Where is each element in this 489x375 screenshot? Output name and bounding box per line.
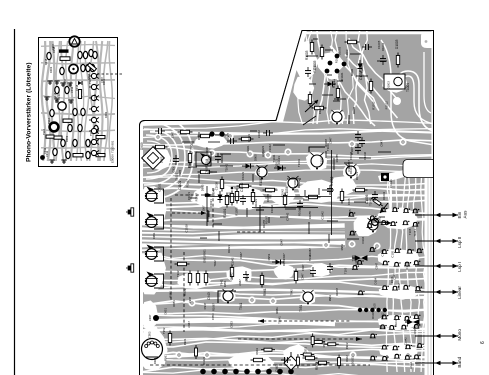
svg-text:R962: R962 (385, 354, 389, 361)
capacitor C1031 (381, 173, 389, 181)
svg-text:T951: T951 (299, 305, 303, 312)
svg-text:T909: T909 (190, 143, 194, 150)
svg-text:C953: C953 (304, 346, 308, 353)
svg-text:C912: C912 (70, 86, 74, 93)
svg-text:R1067: R1067 (259, 176, 263, 186)
svg-text:D1003: D1003 (345, 49, 349, 58)
svg-text:T912: T912 (54, 97, 58, 103)
svg-text:C105: C105 (348, 209, 352, 216)
svg-text:T912: T912 (47, 118, 51, 124)
svg-text:D104: D104 (394, 320, 398, 327)
svg-text:C947: C947 (238, 279, 242, 286)
svg-text:R918: R918 (44, 58, 48, 65)
svg-text:D905: D905 (201, 184, 205, 191)
svg-text:Mono: Mono (457, 329, 462, 341)
svg-text:T105: T105 (408, 228, 412, 235)
svg-text:T105: T105 (372, 303, 376, 310)
svg-text:R951: R951 (275, 307, 279, 314)
svg-text:R1012: R1012 (385, 101, 389, 110)
svg-text:C1042: C1042 (229, 272, 233, 280)
svg-text:Phono-Vorverstärker (Lötseite): Phono-Vorverstärker (Lötseite) (26, 62, 33, 162)
svg-text:T942: T942 (176, 270, 180, 277)
svg-text:C1042: C1042 (268, 144, 272, 153)
svg-text:R962: R962 (345, 355, 349, 362)
svg-text:T1004: T1004 (406, 83, 410, 92)
svg-text:C974: C974 (413, 327, 417, 334)
transistor T1042 (257, 167, 267, 177)
transistor T941 (223, 291, 233, 301)
svg-text:C1021: C1021 (241, 171, 245, 180)
svg-text:C1042: C1042 (321, 211, 325, 220)
svg-text:C953: C953 (230, 321, 234, 328)
svg-text:R951: R951 (152, 232, 156, 239)
svg-text:C1042: C1042 (270, 204, 274, 213)
svg-text:D104: D104 (409, 362, 413, 369)
svg-text:D1021: D1021 (202, 356, 206, 364)
svg-text:R961: R961 (163, 354, 167, 361)
svg-text:C947: C947 (301, 273, 305, 280)
svg-text:E000V 7150 991: E000V 7150 991 (111, 140, 115, 163)
svg-text:D905: D905 (159, 156, 163, 163)
dashed wire with arrow (175, 194, 212, 196)
transistor T901 (inset) (69, 36, 79, 46)
svg-text:C912: C912 (43, 147, 47, 154)
svg-text:R1067: R1067 (202, 205, 206, 214)
callout arrow: Linear (415, 291, 458, 293)
svg-text:R1055: R1055 (335, 154, 339, 163)
svg-text:T912: T912 (89, 130, 93, 136)
svg-text:R1067: R1067 (298, 207, 302, 216)
svg-text:R962: R962 (345, 342, 349, 349)
svg-text:C1042: C1042 (240, 182, 244, 192)
resistor ovals (inset) (47, 52, 51, 59)
svg-text:T1041: T1041 (277, 316, 281, 324)
svg-text:6: 6 (480, 341, 486, 344)
svg-text:C947: C947 (170, 131, 174, 138)
svg-text:C1042: C1042 (354, 257, 358, 265)
svg-text:D1021: D1021 (350, 356, 354, 364)
svg-text:D951: D951 (223, 280, 227, 287)
svg-text:C1101: C1101 (178, 181, 182, 190)
svg-text:R1067: R1067 (324, 138, 328, 146)
svg-text:C1042: C1042 (280, 189, 284, 198)
svg-text:R951: R951 (168, 290, 172, 297)
svg-text:D909: D909 (140, 142, 144, 150)
index dot (inset) (40, 155, 45, 160)
svg-text:R1067: R1067 (186, 179, 190, 188)
svg-text:T942: T942 (213, 260, 217, 267)
connector sockets (left edge) (154, 189, 164, 203)
svg-text:D104: D104 (361, 236, 365, 243)
svg-text:R951: R951 (245, 274, 249, 281)
svg-text:R1067: R1067 (350, 146, 354, 155)
svg-text:D905: D905 (254, 154, 258, 161)
svg-text:C953: C953 (148, 331, 152, 338)
svg-text:D1021: D1021 (174, 172, 178, 180)
svg-text:R1055: R1055 (262, 219, 266, 228)
svg-text:C105: C105 (391, 250, 395, 257)
callout arrow: Band (415, 362, 458, 364)
svg-text:T1041: T1041 (368, 197, 372, 205)
components overlay (126, 39, 424, 374)
svg-text:R1067: R1067 (349, 165, 353, 174)
callout arrow: Ein/Aus switch (415, 214, 458, 216)
svg-text:C907: C907 (100, 76, 104, 83)
callout arrow: Lsp II (415, 240, 458, 242)
svg-text:T1041: T1041 (297, 159, 301, 167)
svg-text:R951: R951 (267, 253, 271, 260)
svg-text:C1038: C1038 (185, 224, 189, 233)
transistor T1040 (332, 112, 342, 122)
svg-text:R1067: R1067 (194, 193, 198, 202)
svg-text:R961: R961 (255, 348, 259, 355)
svg-text:R1055: R1055 (187, 159, 191, 168)
svg-text:R961: R961 (153, 357, 157, 364)
svg-text:R1012: R1012 (371, 101, 375, 110)
svg-text:T912: T912 (42, 129, 46, 135)
svg-text:C947: C947 (392, 273, 396, 280)
svg-text:R961: R961 (263, 288, 267, 296)
capacitor C910 group (153, 145, 168, 148)
svg-text:C947: C947 (188, 296, 192, 303)
callout arrow: Mono (415, 335, 458, 337)
rectifier diamond D909 (142, 147, 165, 170)
loudspeaker plug symbols (126, 208, 134, 216)
svg-text:D1021: D1021 (274, 159, 278, 168)
svg-text:C1042: C1042 (257, 166, 261, 175)
svg-text:D1021: D1021 (355, 171, 359, 180)
svg-text:C910: C910 (205, 167, 209, 174)
svg-text:R918: R918 (75, 84, 79, 91)
svg-text:R951: R951 (183, 288, 187, 296)
right margin callouts (415, 210, 486, 368)
svg-text:C907: C907 (63, 78, 67, 85)
svg-text:D1021: D1021 (246, 145, 250, 153)
svg-text:D104: D104 (405, 263, 409, 270)
svg-text:D104: D104 (374, 277, 378, 284)
svg-text:R106: R106 (371, 312, 375, 319)
copper ground plane (135, 25, 440, 375)
svg-text:T1041: T1041 (228, 191, 232, 199)
svg-text:C963: C963 (275, 364, 279, 372)
transistor T1043 (288, 178, 298, 188)
transistor glyph column (inset) (89, 73, 99, 78)
svg-text:T912: T912 (88, 78, 92, 84)
svg-text:R951: R951 (340, 243, 344, 250)
svg-text:Band: Band (457, 356, 462, 367)
svg-text:Aus: Aus (463, 210, 468, 219)
svg-text:Linear: Linear (457, 286, 462, 299)
svg-text:R961: R961 (322, 340, 326, 347)
solder pads (246, 150, 253, 157)
svg-text:D1021: D1021 (187, 192, 191, 201)
svg-text:D903: D903 (65, 135, 69, 142)
svg-text:R962: R962 (397, 283, 401, 290)
svg-text:C1036: C1036 (363, 151, 367, 160)
svg-text:C1038: C1038 (205, 147, 209, 156)
inset board border (39, 38, 118, 167)
svg-text:D903: D903 (49, 66, 53, 73)
svg-text:R1021: R1021 (318, 106, 322, 115)
svg-text:R1055: R1055 (235, 207, 239, 216)
svg-text:C947: C947 (301, 264, 305, 271)
svg-text:C947: C947 (374, 262, 378, 269)
svg-text:Ein: Ein (457, 211, 462, 218)
svg-text:C947: C947 (328, 137, 332, 144)
svg-text:D905: D905 (178, 169, 182, 176)
small-signal component cluster (right) (380, 208, 387, 212)
svg-text:C105: C105 (347, 198, 351, 205)
svg-text:R1021: R1021 (340, 72, 344, 81)
svg-text:C1042: C1042 (231, 257, 235, 265)
svg-text:C947: C947 (203, 302, 207, 309)
svg-text:Lsp I: Lsp I (457, 262, 462, 272)
DIN connector Bu901 (142, 339, 163, 360)
svg-text:R1063: R1063 (382, 191, 386, 200)
svg-text:C105: C105 (380, 249, 384, 256)
svg-text:D1021: D1021 (261, 145, 265, 154)
capacitor/ground symbols (inset) (47, 81, 52, 85)
svg-text:R1055: R1055 (266, 193, 270, 202)
etched trace channels (139, 30, 307, 126)
svg-text:C947: C947 (187, 321, 191, 328)
svg-text:R1067: R1067 (335, 287, 339, 295)
svg-text:C1042: C1042 (257, 130, 261, 138)
svg-text:C947: C947 (282, 253, 286, 260)
svg-text:D903: D903 (104, 111, 108, 118)
svg-text:C947: C947 (148, 314, 152, 321)
relay T1004 (384, 74, 405, 89)
solder joint dots cluster (335, 54, 340, 59)
svg-text:Lsp II: Lsp II (457, 237, 462, 248)
svg-text:T912: T912 (93, 94, 97, 100)
svg-text:C1054: C1054 (285, 186, 289, 196)
svg-text:C947: C947 (239, 252, 243, 259)
svg-text:R1012: R1012 (381, 42, 385, 51)
svg-text:C910: C910 (172, 165, 176, 172)
svg-text:C947: C947 (380, 140, 384, 147)
svg-text:T952: T952 (162, 327, 166, 334)
transistor T1041 (311, 155, 323, 167)
svg-text:D951: D951 (164, 308, 168, 315)
wire bus (205, 150, 332, 235)
svg-text:T1041: T1041 (224, 163, 228, 171)
wire arrows (305, 100, 318, 112)
svg-text:D951: D951 (172, 300, 176, 307)
svg-text:T1041: T1041 (413, 229, 417, 237)
svg-text:R1021: R1021 (312, 64, 316, 73)
svg-text:D1021: D1021 (209, 199, 213, 208)
svg-text:T1041: T1041 (293, 179, 297, 187)
svg-text:D1003: D1003 (395, 39, 399, 49)
svg-text:C1031: C1031 (389, 179, 393, 188)
svg-text:C1042: C1042 (285, 212, 289, 221)
resistor group R951 area (188, 271, 191, 286)
svg-text:C943: C943 (207, 292, 211, 300)
svg-text:R1067: R1067 (212, 303, 216, 311)
svg-text:R951: R951 (202, 249, 206, 256)
transistor T909 (196, 152, 211, 166)
svg-text:D1021: D1021 (297, 180, 301, 189)
svg-text:R961: R961 (183, 338, 187, 345)
svg-text:R1067: R1067 (320, 156, 324, 165)
svg-text:C947: C947 (226, 132, 230, 139)
svg-text:T941: T941 (239, 303, 243, 310)
svg-text:D1021: D1021 (227, 245, 231, 253)
svg-text:R962: R962 (380, 312, 384, 319)
svg-text:R1021: R1021 (311, 100, 315, 109)
svg-text:R1011: R1011 (332, 79, 336, 88)
svg-text:D1021: D1021 (254, 198, 258, 206)
svg-text:C1042: C1042 (403, 337, 407, 345)
transistor T951 (303, 292, 313, 302)
svg-text:R1052: R1052 (330, 176, 334, 186)
svg-text:D1003: D1003 (338, 46, 342, 55)
junction dot (153, 315, 159, 321)
left rule (14, 29, 16, 375)
svg-text:T942: T942 (289, 289, 293, 296)
callout arrow: Lsp I (415, 265, 458, 267)
svg-text:R951: R951 (328, 294, 332, 301)
dashed reference line (183, 252, 185, 332)
svg-text:D1003: D1003 (386, 81, 390, 90)
svg-text:C907: C907 (51, 43, 55, 50)
svg-text:C1021: C1021 (247, 134, 251, 143)
solder dots row (200, 369, 206, 375)
svg-text:T105: T105 (343, 267, 347, 274)
svg-text:R1091: R1091 (223, 208, 227, 218)
wire arrow detail (380, 203, 388, 213)
svg-text:R1055: R1055 (308, 211, 312, 220)
svg-text:C1038: C1038 (215, 182, 219, 191)
inset board (39, 36, 125, 166)
svg-text:R1003: R1003 (305, 50, 309, 60)
svg-text:C953: C953 (211, 313, 215, 320)
svg-text:R1067: R1067 (308, 248, 312, 256)
svg-text:C947: C947 (280, 239, 284, 246)
svg-text:C1021: C1021 (157, 183, 161, 192)
svg-text:C907: C907 (57, 91, 61, 98)
